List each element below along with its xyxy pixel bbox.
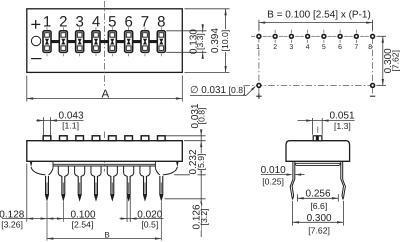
pin 8 front view with end shoulder — [155, 162, 178, 200]
front view base recess lines — [53, 162, 155, 169]
dimension 0.300 [7.62] side extension lines — [293, 201, 344, 226]
pin 1 extended centerline — [46, 202, 48, 241]
pattern row centerline minus row — [244, 84, 379, 86]
pad plus — [256, 83, 261, 88]
side view base plate — [293, 161, 342, 165]
svg-text:3: 3 — [289, 44, 293, 51]
top view body outline — [27, 9, 183, 73]
pin 1 front view with end shoulder — [30, 162, 53, 200]
front view body — [27, 141, 183, 162]
svg-text:[1.1]: [1.1] — [62, 120, 79, 130]
svg-text:∅ 0.031 [0.8]: ∅ 0.031 [0.8] — [190, 85, 246, 96]
svg-text:[3.26]: [3.26] — [1, 220, 23, 230]
contact bar between S2 and S3 — [67, 40, 75, 43]
actuator bump 7 front view — [141, 136, 149, 141]
dimension B = 0.100 [2.54] x (P-1) — [259, 10, 373, 24]
plus mark under pad — [256, 94, 261, 99]
dimension A extension lines — [27, 76, 183, 102]
pad 4 — [300, 30, 316, 43]
pad 6 — [332, 30, 348, 43]
svg-text:B = 0.100 [2.54] x (P-1): B = 0.100 [2.54] x (P-1) — [267, 10, 371, 21]
dimension 0.051 [1.3] extension lines — [313, 118, 323, 135]
contact bar between S1 and S2 — [51, 40, 59, 43]
dimension 0.394 [10.0] extension lines — [185, 9, 230, 73]
contact bar between S3 and S4 — [84, 40, 92, 43]
dimension B extension lines pattern — [259, 20, 373, 30]
svg-text:[6.6]: [6.6] — [310, 201, 327, 211]
side view centerline — [317, 127, 319, 163]
body left edge extension line — [26, 164, 28, 222]
dimension 0.300 [7.62] side — [293, 213, 344, 236]
actuator bump 1 front view — [43, 136, 51, 141]
switch S4 centerline — [95, 27, 97, 56]
actuator bump 5 front view — [109, 136, 117, 141]
svg-text:B: B — [104, 230, 109, 239]
svg-text:[7.62]: [7.62] — [391, 50, 400, 72]
svg-text:[3.3]: [3.3] — [195, 33, 205, 50]
side view right lead — [341, 162, 346, 199]
switch S3 centerline — [79, 27, 81, 56]
dimension 0.232 [5.9] — [188, 149, 206, 176]
switch S4 body — [92, 31, 100, 53]
dimension 0.256 [6.6] extension lines — [297, 194, 338, 201]
actuator bump 3 front view — [76, 136, 84, 141]
switch S3 body — [76, 31, 84, 53]
top view vertical centerline — [104, 1, 106, 86]
dimension B front — [47, 230, 161, 240]
pad 3 — [283, 30, 299, 43]
actuator bump 4 front view — [92, 136, 100, 141]
switch S5 centerline — [111, 27, 113, 56]
dimension 0.020 [0.5] extension lines — [127, 196, 130, 222]
dimension 0.128 [3.26] — [0, 210, 47, 230]
pin 2 extended centerline — [62, 202, 64, 222]
svg-text:[5.9]: [5.9] — [196, 154, 206, 171]
dimension 0.100 [2.54] — [47, 210, 96, 230]
pad 1 — [251, 34, 267, 39]
dimension 0.010 [0.25] — [261, 165, 305, 186]
switch S8 centerline — [160, 27, 162, 56]
svg-text:1: 1 — [256, 44, 260, 51]
dimension 0.300 [7.62] extension lines pattern — [378, 36, 387, 85]
polarity minus mark — [31, 58, 41, 60]
dimension 0.130 [3.3] extension lines — [166, 31, 206, 53]
dimension A — [27, 89, 183, 101]
pin-1 index circle — [31, 36, 40, 45]
pin 6 front view — [124, 166, 134, 200]
dimension 0.043 [1.1] — [36, 111, 84, 131]
svg-text:0.300: 0.300 — [307, 213, 332, 224]
side view actuator bump — [313, 136, 322, 141]
contact bar between S5 and S6 — [116, 40, 124, 43]
switch S2 body — [59, 31, 67, 53]
contact bar between S4 and S5 — [100, 40, 108, 43]
minus mark under pad — [370, 95, 375, 97]
hole diameter label 0.031 [0.8] — [190, 85, 256, 96]
svg-text:5: 5 — [322, 44, 326, 51]
dimension 0.130 [3.3] — [189, 24, 205, 59]
pin 3 front view — [75, 166, 85, 200]
pattern column centerline pin8 — [372, 25, 374, 94]
svg-text:6: 6 — [338, 44, 342, 51]
dimension 0.043 [1.1] extension lines — [43, 117, 50, 135]
svg-text:0.010: 0.010 — [261, 165, 286, 176]
svg-text:[2.54]: [2.54] — [72, 220, 94, 230]
actuator bump 2 front view — [60, 136, 68, 141]
switch S7 centerline — [144, 27, 146, 56]
actuator bump 6 front view — [125, 136, 133, 141]
svg-text:[10.0]: [10.0] — [220, 30, 230, 52]
svg-text:8: 8 — [368, 44, 372, 51]
pin 4 front view — [91, 166, 101, 200]
switch S1 centerline — [46, 27, 48, 56]
switch S6 centerline — [128, 27, 130, 56]
pad 8 — [365, 34, 381, 39]
pad 5 — [316, 30, 332, 43]
dimension 0.394 [10.0] — [210, 9, 230, 73]
pin 8 extended centerline — [160, 202, 162, 241]
svg-text:[1.3]: [1.3] — [334, 121, 351, 131]
switch S5 body — [108, 31, 116, 53]
polarity plus mark — [31, 20, 40, 29]
svg-text:7: 7 — [354, 44, 358, 51]
switch S8 body — [157, 31, 165, 53]
dimension 0.256 [6.6] — [297, 188, 338, 211]
pad 2 — [267, 30, 283, 43]
contact bar between S7 and S8 — [149, 40, 157, 43]
svg-text:[7.62]: [7.62] — [308, 225, 330, 235]
pad number 1 — [256, 43, 261, 49]
contact bar between S6 and S7 — [133, 40, 141, 43]
dimension 0.300 [7.62] pattern — [382, 36, 400, 85]
front view centerline — [104, 132, 106, 172]
dimension 0.020 [0.5] — [120, 210, 164, 230]
svg-text:A: A — [102, 89, 110, 101]
side view left lead — [290, 162, 295, 199]
pattern column centerline pin1 — [258, 25, 260, 94]
dimension 0.126 [3.2] — [191, 175, 209, 237]
actuator bump 8 front view — [158, 136, 166, 141]
switch S7 body — [141, 31, 149, 53]
front right side extension lines — [165, 136, 206, 199]
pin 7 front view — [140, 166, 150, 200]
svg-text:[3.2]: [3.2] — [199, 209, 209, 226]
switch S2 centerline — [62, 27, 64, 56]
pin 5 front view — [107, 166, 117, 200]
svg-text:0.256: 0.256 — [305, 188, 330, 199]
dimension 0.031 [0.8] front — [190, 103, 207, 175]
svg-text:4: 4 — [306, 44, 310, 51]
side view body — [286, 141, 350, 162]
svg-text:2: 2 — [273, 44, 277, 51]
switch S6 body — [125, 31, 133, 53]
pin 2 front view — [58, 166, 68, 200]
svg-text:[0.5]: [0.5] — [141, 220, 158, 230]
pad 7 — [348, 30, 364, 43]
pad minus — [370, 83, 375, 88]
svg-text:[0.8]: [0.8] — [196, 108, 206, 125]
svg-text:[0.25]: [0.25] — [262, 176, 284, 186]
switch S1 body — [43, 31, 51, 53]
dimension 0.051 [1.3] — [298, 111, 355, 131]
